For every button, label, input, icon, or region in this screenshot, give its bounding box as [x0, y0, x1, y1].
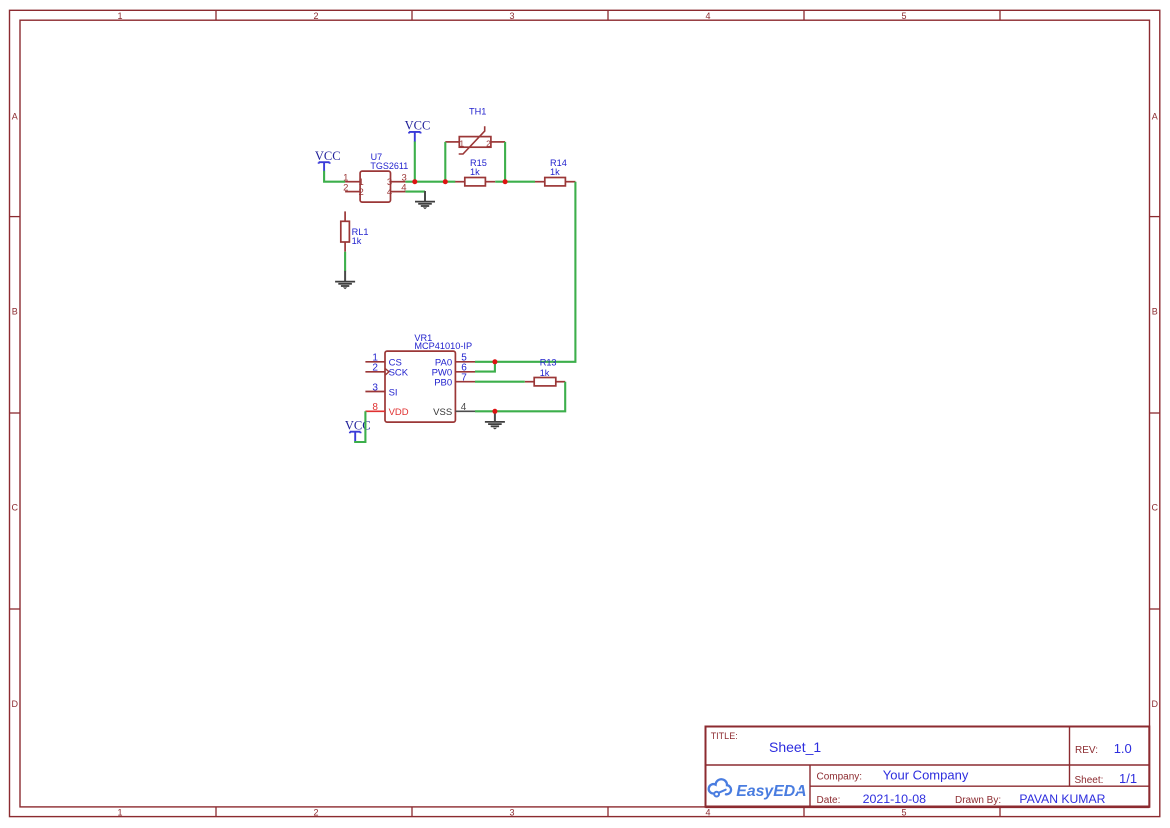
svg-text:1/1: 1/1: [1119, 771, 1137, 786]
IC U7 TGS2611: [360, 152, 408, 202]
ruler ticks bottom: [216, 807, 1000, 817]
resistor R14: [535, 158, 575, 186]
svg-text:PAVAN KUMAR: PAVAN KUMAR: [1019, 792, 1105, 806]
U7 pin 4: [387, 183, 407, 199]
title block text labels: [711, 731, 1104, 806]
svg-text:VSS: VSS: [433, 407, 452, 418]
VR1 pin 3 SI: [365, 382, 397, 398]
svg-text:VCC: VCC: [345, 419, 371, 433]
svg-text:1: 1: [117, 11, 122, 21]
wire PW0 up to PA0 node: [475, 362, 495, 372]
ruler numbers bottom: [117, 807, 906, 817]
svg-text:Date:: Date:: [817, 795, 841, 806]
svg-text:2021-10-08: 2021-10-08: [863, 792, 926, 806]
svg-text:Drawn By:: Drawn By:: [955, 795, 1001, 806]
wire VCC to U7 pin1: [324, 171, 345, 182]
svg-text:PB0: PB0: [434, 377, 452, 388]
svg-text:VCC: VCC: [315, 149, 341, 163]
svg-text:C: C: [12, 502, 19, 512]
svg-text:Sheet_1: Sheet_1: [769, 739, 821, 755]
svg-text:2: 2: [343, 183, 348, 194]
svg-text:REV:: REV:: [1075, 745, 1098, 756]
svg-text:3: 3: [509, 807, 514, 817]
svg-text:B: B: [12, 306, 18, 316]
svg-text:2: 2: [486, 139, 491, 149]
net flag VCC (above, x=415): [405, 119, 431, 143]
svg-text:TH1: TH1: [469, 106, 486, 116]
svg-text:3: 3: [509, 11, 514, 21]
ground (U7 pin4): [415, 191, 435, 209]
EasyEDA logo: [709, 779, 807, 800]
resistor RL1: [341, 211, 369, 251]
ruler letters right: [1151, 111, 1158, 709]
VR1 pin 4 VSS: [433, 402, 475, 418]
IC VR1 MCP41010-IP: [385, 333, 472, 422]
svg-text:VDD: VDD: [389, 407, 409, 418]
svg-text:2: 2: [359, 187, 364, 198]
svg-text:1k: 1k: [550, 167, 560, 177]
svg-text:5: 5: [901, 807, 906, 817]
svg-text:A: A: [1152, 111, 1158, 121]
ground (VSS): [485, 411, 505, 429]
VR1 pin 2 SCK: [365, 363, 408, 379]
svg-text:1: 1: [459, 139, 464, 149]
VR1 pin 6 PW0: [432, 363, 475, 379]
wire TH1 left leg: [444, 142, 446, 182]
ruler ticks top: [216, 10, 1000, 20]
U7 pin 2: [343, 183, 364, 199]
svg-text:R13: R13: [540, 358, 557, 368]
ruler ticks left: [10, 217, 21, 609]
svg-text:1k: 1k: [470, 167, 480, 177]
junction node (VCC drop on main wire): [412, 179, 417, 184]
svg-text:1.0: 1.0: [1114, 741, 1132, 756]
wire TH1 right leg: [504, 142, 506, 182]
junction node (TH1 left): [443, 179, 448, 184]
VR1 pin 7 PB0: [434, 373, 475, 389]
svg-text:4: 4: [461, 402, 467, 413]
svg-text:D: D: [1151, 699, 1158, 709]
title block frame: [706, 727, 1150, 807]
ruler ticks right: [1150, 217, 1160, 609]
svg-text:SI: SI: [389, 387, 398, 398]
svg-text:D: D: [12, 699, 19, 709]
svg-text:3: 3: [372, 382, 378, 393]
svg-text:VCC: VCC: [405, 119, 431, 133]
wire VCC to VDD pin8: [355, 411, 365, 442]
resistor R15: [455, 158, 495, 186]
U7 pin 1: [343, 173, 364, 188]
wire U7 pin3 to R15: [405, 181, 455, 183]
svg-text:2: 2: [372, 363, 378, 374]
net flag VCC (left of U7): [315, 149, 341, 172]
wire RL1 to ground: [344, 252, 346, 272]
svg-text:C: C: [1151, 502, 1158, 512]
svg-text:Company:: Company:: [817, 772, 863, 783]
ruler numbers top: [117, 11, 906, 21]
thermistor TH1: [445, 106, 505, 154]
svg-text:2: 2: [313, 807, 318, 817]
svg-text:4: 4: [387, 187, 392, 198]
junction node (VSS): [492, 409, 497, 414]
svg-text:TITLE:: TITLE:: [711, 731, 738, 741]
wire PB0 to R13: [475, 381, 525, 383]
svg-text:A: A: [12, 111, 18, 121]
wire R13 down to VSS line: [475, 382, 565, 412]
junction node (TH1 right): [503, 179, 508, 184]
VR1 pin 1 CS: [365, 353, 401, 369]
svg-text:2: 2: [313, 11, 318, 21]
VR1 pin 5 PA0: [435, 353, 475, 369]
svg-text:8: 8: [372, 402, 378, 413]
ground (RL1): [335, 271, 355, 289]
junction node (PA0): [492, 359, 497, 364]
ruler letters left: [12, 111, 19, 709]
VR1 pin 8 VDD: [365, 402, 408, 418]
svg-text:4: 4: [705, 807, 710, 817]
svg-text:MCP41010-IP: MCP41010-IP: [414, 341, 472, 351]
svg-text:4: 4: [705, 11, 710, 21]
svg-text:SCK: SCK: [389, 367, 409, 378]
wire U7 pin4 to ground: [405, 191, 425, 193]
svg-text:5: 5: [901, 11, 906, 21]
svg-text:TGS2611: TGS2611: [370, 161, 408, 171]
svg-text:1k: 1k: [540, 368, 550, 378]
net flag VCC (below VR1): [345, 419, 371, 443]
title block values: [769, 739, 1137, 806]
svg-text:B: B: [1152, 306, 1158, 316]
wire R15 to R14: [495, 181, 535, 183]
svg-text:EasyEDA: EasyEDA: [736, 783, 806, 800]
svg-text:7: 7: [461, 373, 467, 384]
svg-text:1k: 1k: [352, 236, 362, 246]
U7 pin 3: [387, 173, 407, 188]
resistor R13: [525, 358, 565, 386]
svg-text:Your Company: Your Company: [883, 768, 969, 783]
svg-text:Sheet:: Sheet:: [1075, 775, 1104, 786]
svg-text:1: 1: [117, 807, 122, 817]
wire VCC down to node: [414, 142, 416, 182]
wire R14 down to VR1 PA0: [475, 182, 575, 362]
